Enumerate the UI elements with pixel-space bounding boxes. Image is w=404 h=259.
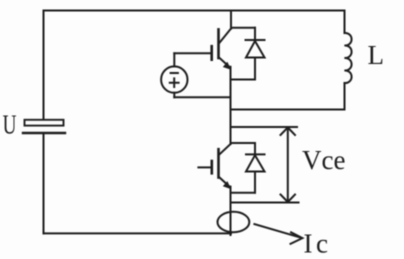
svg-text:L: L <box>368 40 385 70</box>
svg-text:Ic: Ic <box>304 229 332 259</box>
svg-text:Vce: Vce <box>302 145 345 175</box>
svg-text:U: U <box>3 111 17 141</box>
